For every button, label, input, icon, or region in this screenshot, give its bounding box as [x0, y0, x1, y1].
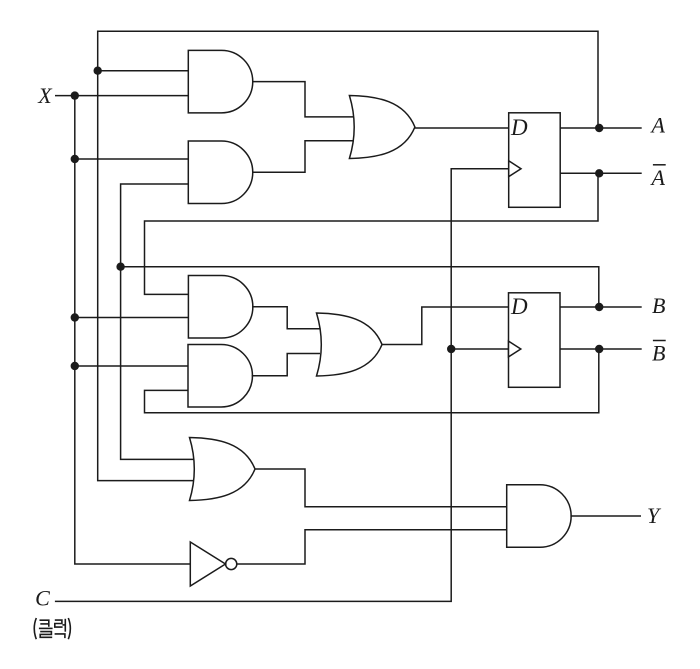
wire: X input line to AND1 lower input: [55, 95, 188, 97]
junction dot B output: [595, 303, 603, 311]
junction dot X at input: [71, 91, 79, 99]
wire: X vertical bus down to NOT gate input: [75, 96, 191, 564]
svg-text:B: B: [652, 341, 665, 366]
svg-text:X: X: [37, 83, 53, 108]
OR gate 3: [190, 438, 256, 501]
wire: B feedback vertical to AND2 lower input: [121, 184, 188, 267]
junction dot X to AND3: [71, 313, 79, 321]
wire: clock net C to FF1 clock: [55, 169, 509, 602]
junction dot A-bar output: [595, 169, 603, 177]
AND gate 5 (to Y): [507, 485, 571, 548]
NOT gate bubble: [226, 558, 237, 569]
clock label close paren: [68, 618, 70, 639]
junction dot A-feedback branch to AND1: [94, 67, 102, 75]
AND gate 1 (X and A): [188, 50, 252, 113]
wire: A feedback branch to AND1 upper input: [98, 70, 188, 72]
FF1 clock triangle: [509, 161, 521, 177]
clock label Hangul syllable KEUL: [39, 620, 53, 637]
wire: OR3 output to AND5 upper input: [255, 469, 507, 507]
wire: FF2 Q output to B: [560, 306, 642, 308]
wire: AND1 output to OR1 upper input: [252, 82, 354, 117]
wire: NOT output to AND5 lower input: [237, 530, 507, 564]
OR gate 1: [349, 96, 415, 159]
wire: OR2 output to FF2 D input: [382, 307, 509, 345]
D flip-flop U2 box: [509, 293, 561, 388]
OR gate 2: [317, 313, 383, 376]
clock label Hangul syllable REOK: [55, 619, 66, 638]
wire: AND4 upper input from X: [75, 365, 188, 367]
junction dot B feedback: [116, 263, 124, 271]
wire: B feedback vertical down to OR3 upper input: [121, 267, 194, 460]
junction dot X to AND2: [71, 155, 79, 163]
junction dot X to AND4: [71, 362, 79, 370]
wire: clock branch to FF2 clock: [451, 348, 508, 350]
svg-text:D: D: [510, 115, 528, 140]
junction dot B-bar output: [595, 345, 603, 353]
wire: FF2 Qbar output to B-bar: [560, 348, 642, 350]
svg-text:B: B: [652, 293, 665, 318]
wire: A-bar feedback from FF1 Qbar down to AND3 upper input: [145, 173, 599, 294]
svg-text:A: A: [650, 165, 666, 190]
wire: AND2 upper input from X: [75, 158, 188, 160]
AND gate 4 (X and Bbar): [188, 344, 252, 407]
wire: AND4 output to OR2 lower input: [252, 354, 320, 376]
wire: AND3 lower input from X: [75, 317, 189, 319]
svg-text:C: C: [35, 586, 50, 611]
wire: A feedback (top wire from A output down to OR3 lower input): [98, 31, 598, 480]
wire: FF1 Qbar output to A-bar: [560, 172, 642, 174]
svg-text:A: A: [650, 113, 666, 138]
wire: AND5 output to Y: [570, 515, 641, 517]
junction dot A output: [595, 124, 603, 132]
NOT gate triangle: [190, 542, 225, 586]
wire: FF1 Q output to A: [560, 127, 642, 129]
FF2 clock triangle: [509, 341, 521, 357]
wire: B-bar feedback from FF2 Qbar down to AND4 lower input: [145, 349, 599, 413]
junction dot clock branch: [447, 345, 455, 353]
wire: B feedback from FF2 Q up and left: [121, 267, 599, 307]
wire: OR1 output to FF1 D input: [415, 127, 509, 129]
AND gate 3 (Abar and X): [188, 276, 252, 339]
svg-text:D: D: [510, 294, 528, 319]
clock label (Korean: keulleok) open paren: [34, 618, 36, 639]
AND gate 2 (X and B): [188, 141, 252, 204]
wire: AND3 output to OR2 upper input: [252, 307, 320, 329]
D flip-flop U1 box: [509, 113, 561, 208]
wire: AND2 output to OR1 lower input: [252, 141, 354, 173]
